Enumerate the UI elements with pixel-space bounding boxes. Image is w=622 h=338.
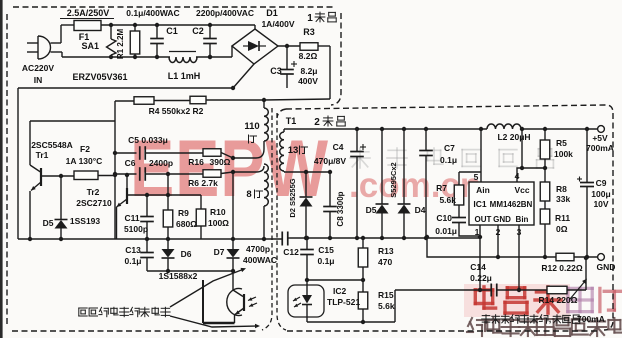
svg-text:,: , <box>549 314 552 324</box>
resistor R3 8.2ohm <box>300 43 318 51</box>
AC plug symbol <box>37 36 39 59</box>
svg-text:Ain: Ain <box>476 185 490 195</box>
wire Tr2 base row <box>128 194 201 196</box>
capacitor C5 0.033u <box>139 146 141 160</box>
svg-text:C3: C3 <box>270 66 282 76</box>
svg-text:2400p: 2400p <box>149 158 173 168</box>
+5V terminal <box>598 126 605 133</box>
capacitor C8 3300p <box>329 172 331 206</box>
wire optocoupler emitter return <box>203 322 235 324</box>
svg-text:S5295Cx2: S5295Cx2 <box>389 162 398 197</box>
wire R3 down to primary <box>318 45 330 47</box>
svg-text:33k: 33k <box>556 194 570 204</box>
svg-text:R6 2.7k: R6 2.7k <box>188 178 218 188</box>
svg-text:470μ/8V: 470μ/8V <box>314 156 346 166</box>
svg-text:1S1588x2: 1S1588x2 <box>159 271 198 281</box>
fuse F1 <box>74 21 101 31</box>
wire GND pin2 <box>497 225 499 257</box>
label overcurrent sample <box>482 315 490 317</box>
svg-text:GND: GND <box>493 215 511 224</box>
svg-text:5.6k: 5.6k <box>439 195 456 205</box>
wire OUT pin1 <box>479 225 481 290</box>
svg-text:Vcc: Vcc <box>514 185 529 195</box>
svg-text:R5: R5 <box>556 138 567 148</box>
wire Ain node <box>480 129 482 182</box>
varistor SA1 ERZV05V361 <box>110 25 112 39</box>
resistor R12 0.22ohm <box>556 253 574 261</box>
capacitor C14 0.22u <box>490 284 492 297</box>
bridge rectifier D1 <box>232 29 278 64</box>
capacitor C1 <box>156 25 158 38</box>
svg-text:C1: C1 <box>166 26 178 36</box>
capacitor C13 0.1u <box>146 239 148 252</box>
svg-text:C10: C10 <box>436 213 452 223</box>
diode D5 1SS193 <box>60 176 62 219</box>
svg-text:SA1: SA1 <box>81 41 99 51</box>
sense wire row <box>395 289 491 291</box>
secondary ground rail <box>290 237 480 239</box>
svg-text:680Ω: 680Ω <box>176 219 197 229</box>
svg-text:8.2Ω: 8.2Ω <box>299 51 318 61</box>
svg-text:D5: D5 <box>366 205 377 215</box>
annotation arrow to R12 <box>570 280 586 299</box>
wire startup row R4 R2 <box>115 100 134 102</box>
svg-text:R11: R11 <box>555 213 570 223</box>
node B to winding tap <box>231 170 235 174</box>
svg-text:2SC2710: 2SC2710 <box>76 198 112 208</box>
svg-text:700mA: 700mA <box>577 314 605 324</box>
svg-text:D2 S5255G: D2 S5255G <box>288 178 297 217</box>
transformer T1 secondary winding 13 turns <box>283 129 285 132</box>
callout lines <box>170 269 244 307</box>
svg-text:5100p: 5100p <box>124 224 148 234</box>
svg-text:OUT: OUT <box>475 215 492 224</box>
svg-text:390Ω: 390Ω <box>210 157 231 167</box>
wire bridge bottom to return <box>233 64 254 88</box>
svg-text:5.6k: 5.6k <box>378 301 395 311</box>
svg-text:MM1462BN: MM1462BN <box>490 200 533 209</box>
ground wire row <box>427 237 556 257</box>
wire node column <box>114 101 116 239</box>
svg-text:C5 0.033μ: C5 0.033μ <box>128 135 168 145</box>
diode D5 secondary <box>381 129 383 204</box>
wire return rail left <box>18 87 233 89</box>
svg-text:Bin: Bin <box>516 215 529 224</box>
svg-text:R12 0.22Ω: R12 0.22Ω <box>541 263 582 273</box>
diode D2 S5255G <box>305 172 307 197</box>
wire plug lower to rail <box>51 51 63 53</box>
svg-text:D6: D6 <box>181 249 192 259</box>
wire Vcc pin4 <box>517 168 545 182</box>
svg-text:R3: R3 <box>303 27 315 37</box>
svg-text:IC2: IC2 <box>333 286 347 296</box>
svg-text:R1 2.2M: R1 2.2M <box>116 29 125 60</box>
secondary winding bottom wire <box>284 171 330 173</box>
GND terminal <box>598 254 605 261</box>
diode D7 <box>227 249 240 258</box>
dashed border primary outer box <box>13 6 336 8</box>
wire top rail <box>101 24 255 26</box>
resistor R2 <box>190 96 206 104</box>
svg-text:13: 13 <box>288 145 299 156</box>
resistor R15 5.6k <box>362 280 364 292</box>
svg-text:C4: C4 <box>333 142 344 152</box>
wire IC2 cathode bottom row <box>307 321 395 323</box>
svg-text:C8 3300p: C8 3300p <box>336 191 345 226</box>
wire Tr1 base <box>41 175 74 177</box>
svg-text:110: 110 <box>244 121 259 132</box>
svg-text:IN: IN <box>34 75 43 85</box>
capacitor C2 <box>209 25 211 38</box>
diode D6 <box>167 239 169 249</box>
IC1 MM1462BN box <box>469 182 534 225</box>
svg-text:5: 5 <box>474 172 479 182</box>
inductor L1 1mH <box>169 57 197 63</box>
svg-text:R9: R9 <box>178 208 189 218</box>
svg-text:4700p: 4700p <box>246 244 270 254</box>
wire sense row left end <box>394 290 396 322</box>
snubber C6 branch <box>115 173 137 175</box>
svg-text:0.1μ/400WAC: 0.1μ/400WAC <box>126 8 179 18</box>
dashed isolation divider / transformer core <box>262 108 272 330</box>
wire rail to bridge top <box>254 25 256 29</box>
callout insulation text <box>79 307 87 309</box>
svg-text:2.5A/250V: 2.5A/250V <box>67 8 110 18</box>
capacitor C10 0.01u <box>458 205 460 217</box>
wire between R4 R2 <box>154 100 190 102</box>
node A to winding tap <box>231 156 235 160</box>
svg-text:C7: C7 <box>444 143 455 153</box>
capacitor C11 5100p <box>146 195 148 216</box>
svg-text:400V: 400V <box>298 76 318 86</box>
resistor R7 5.6k <box>459 171 481 173</box>
svg-text:C15: C15 <box>318 245 334 255</box>
capacitor C9 100u 10V <box>586 129 588 182</box>
resistor R10 100ohm <box>200 195 202 209</box>
capacitor C15 0.1u <box>306 238 308 249</box>
wire R2 to transformer top <box>206 99 264 101</box>
svg-text:C13: C13 <box>125 245 141 255</box>
svg-text:D4: D4 <box>415 205 426 215</box>
svg-text:0Ω: 0Ω <box>556 224 568 234</box>
svg-text:1A/400V: 1A/400V <box>261 19 294 29</box>
svg-text:700mA: 700mA <box>586 143 614 153</box>
resistor R1 2.2M <box>134 25 136 31</box>
optocoupler phototransistor <box>232 271 234 290</box>
wire Bin pin3 <box>518 225 520 290</box>
svg-text:1A 130°C: 1A 130°C <box>66 156 103 166</box>
svg-text:R4 550kx2 R2: R4 550kx2 R2 <box>149 106 204 116</box>
diode D4 secondary <box>403 129 405 204</box>
svg-text:GND: GND <box>597 262 616 272</box>
svg-text:F2: F2 <box>80 144 90 154</box>
watermark yiditop red text <box>464 284 570 317</box>
transistor Tr1 2SC5548A <box>30 120 115 122</box>
svg-text:Tr2: Tr2 <box>87 187 100 197</box>
svg-text:R7: R7 <box>436 183 447 193</box>
dashed border secondary box <box>286 105 613 113</box>
watermark rf expert text <box>468 318 472 326</box>
svg-text:L2 20μH: L2 20μH <box>497 132 530 142</box>
svg-text:1SS193: 1SS193 <box>70 216 101 226</box>
svg-text:Tr1: Tr1 <box>36 150 49 160</box>
transistor Tr2 2SC2710 <box>126 175 128 189</box>
resistor R14 220ohm <box>547 286 567 294</box>
svg-text:+5V: +5V <box>592 133 608 143</box>
svg-text:100μ: 100μ <box>591 189 610 199</box>
svg-text:1: 1 <box>307 13 313 24</box>
svg-text:TLP-521: TLP-521 <box>327 297 360 307</box>
resistor R13 470 <box>362 238 364 248</box>
svg-text:T1: T1 <box>286 116 297 126</box>
svg-text:400WAC: 400WAC <box>243 255 277 265</box>
svg-text:C14: C14 <box>470 262 486 272</box>
wire C15 R13 row <box>307 279 363 281</box>
wire node B down to D7 <box>232 172 234 249</box>
light arrows <box>248 297 256 301</box>
primary ground rail <box>18 238 264 240</box>
svg-text:470: 470 <box>378 257 392 267</box>
wire D6 D7 bottom <box>147 270 233 272</box>
fuse F2 1A 130C <box>74 171 98 180</box>
resistor R8 33k <box>544 168 546 182</box>
resistor R11 0ohm <box>544 201 546 209</box>
resistor R5 100k <box>544 129 546 140</box>
svg-text:R8: R8 <box>556 184 567 194</box>
svg-text:0.1μ: 0.1μ <box>124 256 141 266</box>
svg-text:IC1: IC1 <box>473 199 487 209</box>
wire rail after L2 <box>521 128 598 130</box>
watermark gray chinese text <box>351 151 369 153</box>
svg-text:AC220V: AC220V <box>22 63 54 73</box>
inductor L2 20uH <box>487 124 521 129</box>
svg-text:C9: C9 <box>596 178 607 188</box>
svg-text:C11: C11 <box>124 213 139 223</box>
wire bridge output <box>278 45 300 47</box>
svg-text:L1 1mH: L1 1mH <box>168 71 201 81</box>
svg-text:C12: C12 <box>283 247 299 257</box>
svg-text:2200p/400VAC: 2200p/400VAC <box>196 8 254 18</box>
capacitor C7 0.1u <box>425 129 427 150</box>
svg-text:R16: R16 <box>188 157 204 167</box>
svg-text:C2: C2 <box>192 26 204 36</box>
svg-text:0.1μ: 0.1μ <box>317 256 334 266</box>
svg-text:0.01μ: 0.01μ <box>435 226 457 236</box>
wire L2 tap to Vcc <box>521 129 523 168</box>
scan edge artifact left <box>0 0 3 338</box>
resistor R9 680ohm <box>167 195 169 210</box>
svg-text:R10: R10 <box>210 207 226 217</box>
capacitor C3 8.2u/400V <box>286 46 288 69</box>
capacitor C6 2400p <box>139 167 141 181</box>
svg-text:D7: D7 <box>214 247 225 257</box>
svg-text:10V: 10V <box>593 199 608 209</box>
wire rail to bridge left <box>231 46 233 57</box>
transformer T1 primary winding 110 turns <box>263 100 265 108</box>
svg-text:D5: D5 <box>43 218 54 228</box>
svg-text:8: 8 <box>246 189 251 200</box>
svg-text:2: 2 <box>314 117 320 128</box>
svg-text:R13: R13 <box>378 246 394 256</box>
svg-text:0.22μ: 0.22μ <box>470 273 492 283</box>
svg-text:100Ω: 100Ω <box>208 218 229 228</box>
svg-text:ERZV05V361: ERZV05V361 <box>72 72 127 82</box>
secondary top rail <box>284 128 487 130</box>
transformer T1 aux winding 8 turns <box>264 164 268 206</box>
svg-text:8.2μ: 8.2μ <box>300 66 317 76</box>
svg-text:0.1μ: 0.1μ <box>440 155 457 165</box>
resistor R4 <box>134 97 154 105</box>
svg-text:R15: R15 <box>378 290 394 300</box>
wire plug to fuse row <box>51 42 62 44</box>
series capacitor C12 4700p <box>281 232 283 246</box>
capacitor C4 470u/8V <box>356 129 358 151</box>
resistor R6 2.7k <box>203 170 221 178</box>
snubber C5 branch <box>115 152 137 154</box>
svg-text:2SC5548A: 2SC5548A <box>31 140 73 150</box>
svg-text:100k: 100k <box>554 149 573 159</box>
optocoupler IC2 TLP-521 LED <box>288 285 324 317</box>
svg-text:D1: D1 <box>266 8 278 18</box>
resistor R16 390ohm <box>203 149 221 157</box>
svg-text:C6: C6 <box>125 158 136 168</box>
